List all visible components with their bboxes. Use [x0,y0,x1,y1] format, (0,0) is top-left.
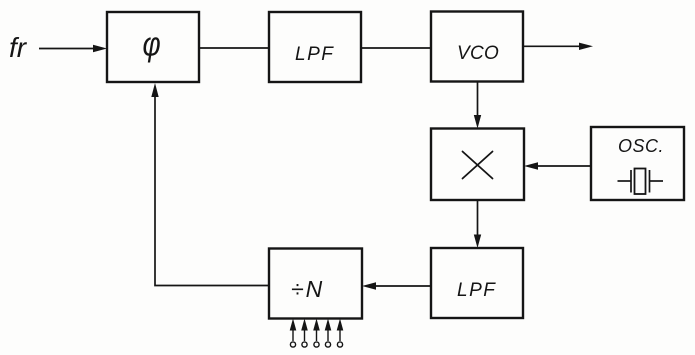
low-pass filter box LPF2 [431,248,523,318]
wire input arrow into phase detector [39,45,107,52]
oscillator box OSC [591,127,684,200]
svg-text:LPF: LPF [295,44,334,65]
wire feedback divider to phase detector [151,83,269,286]
wire phase detector to LPF1 [199,47,269,49]
programmable divider box ÷N [269,249,362,319]
VCO box [431,12,523,82]
phase detector box U1 [107,12,199,82]
program input 2 (arrow with circle) [301,319,308,348]
svg-text:fr: fr [9,32,28,63]
low-pass filter box LPF1 [269,12,361,82]
program input 1 (arrow with circle) [290,319,297,348]
program input 4 (arrow with circle) [325,319,332,348]
program input 5 (arrow with circle) [337,319,344,348]
wire OSC to mixer arrow [524,162,591,169]
wire VCO output arrow [523,43,593,50]
program input 3 (arrow with circle) [313,319,320,348]
svg-text:LPF: LPF [457,280,496,301]
wire VCO to mixer arrow [474,82,481,129]
mixer box M1 [431,129,524,201]
svg-text:VCO: VCO [457,43,499,64]
wire LPF2 to divider arrow [362,282,431,289]
svg-text:OSC.: OSC. [618,136,664,156]
crystal X1 symbol [618,169,664,195]
svg-text:φ: φ [143,25,161,63]
mixer X symbol [463,152,493,179]
wire LPF1 to VCO [361,47,431,49]
svg-text:÷N: ÷N [291,276,324,302]
wire mixer to LPF2 arrow [474,200,481,248]
